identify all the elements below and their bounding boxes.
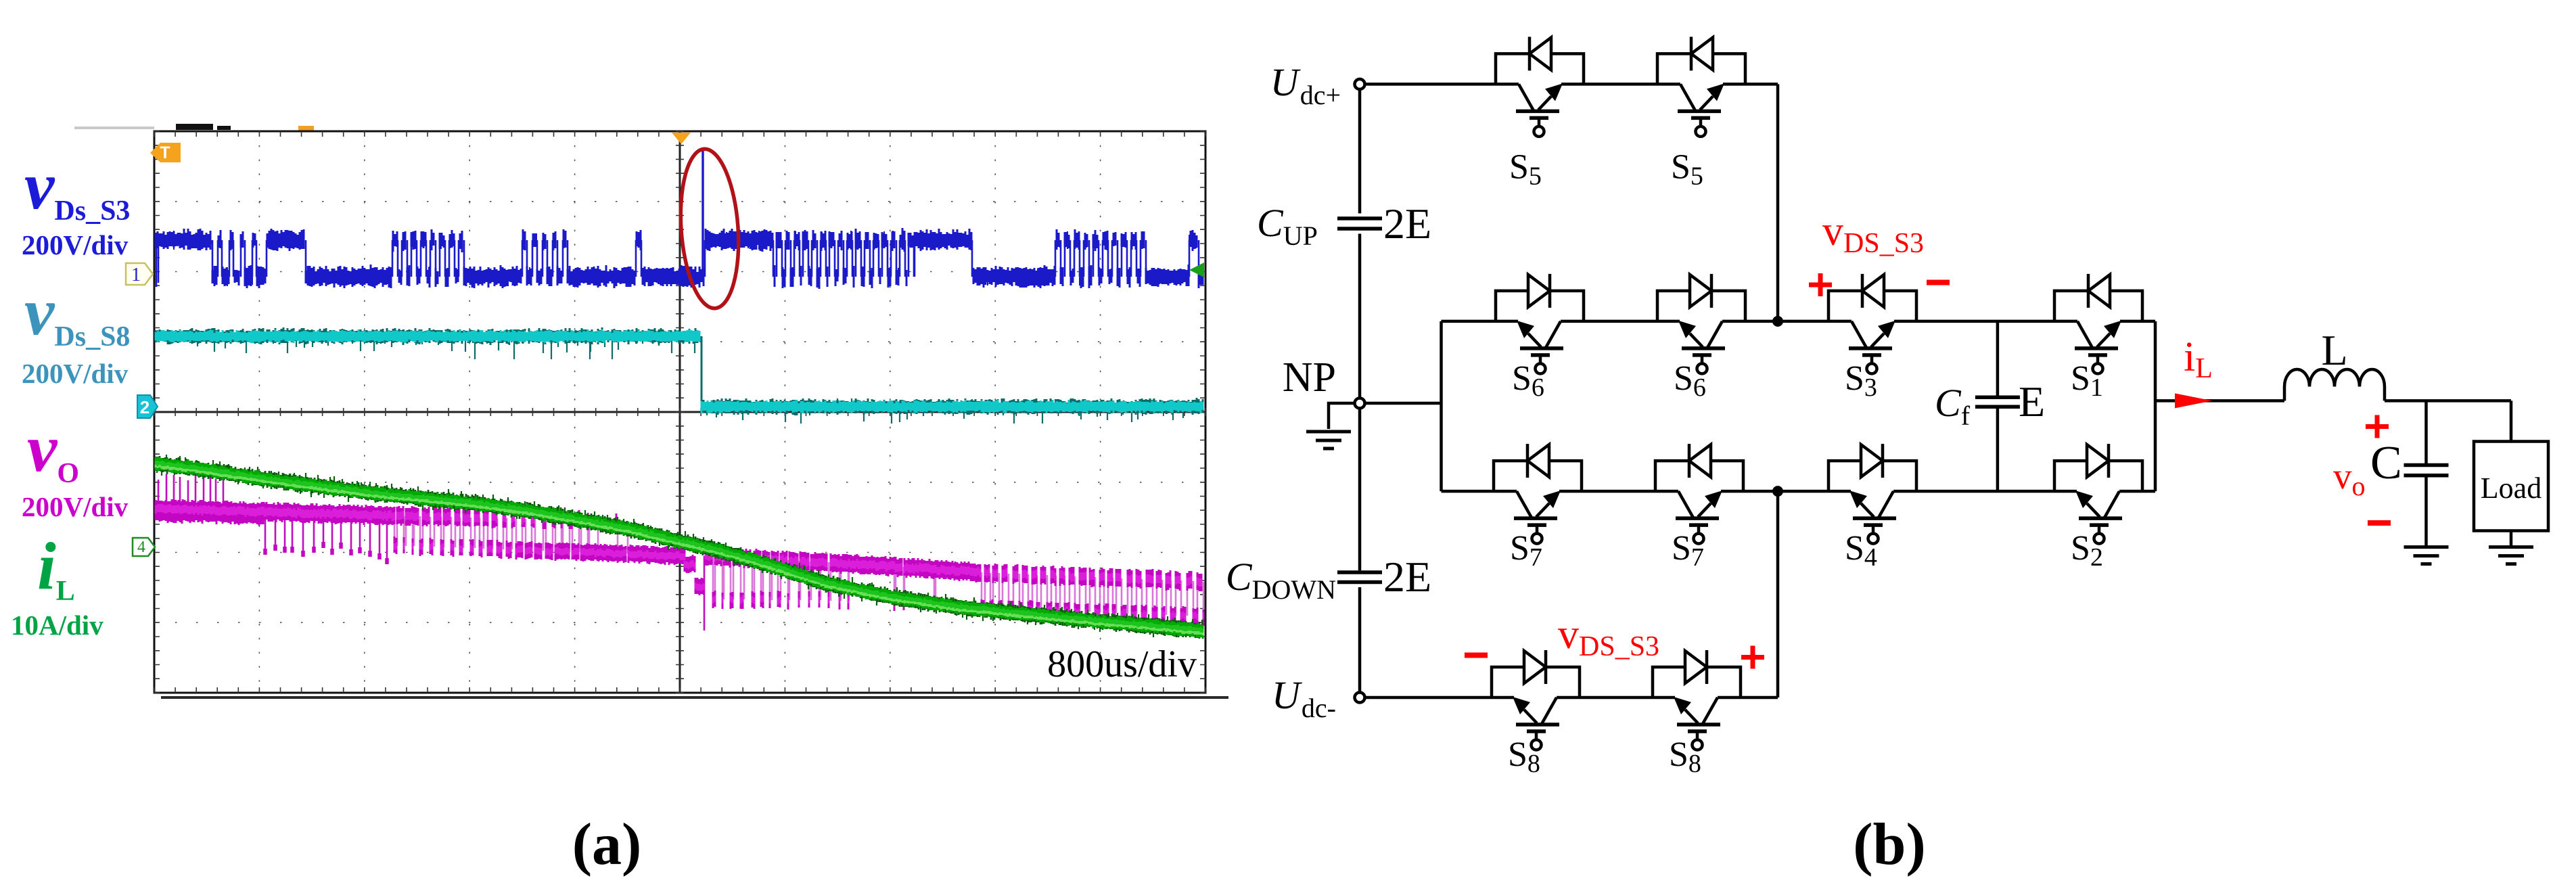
svg-text:L: L — [2321, 326, 2347, 374]
wire NP riser — [1440, 321, 1443, 491]
svg-text:vDS_S3: vDS_S3 — [1558, 612, 1659, 662]
svg-text:S5: S5 — [1509, 147, 1542, 190]
svg-text:Cf: Cf — [1935, 381, 1971, 431]
svg-text:10A/div: 10A/div — [11, 610, 103, 641]
transistor S7 (right) — [1655, 461, 1743, 491]
svg-text:Load: Load — [2481, 472, 2541, 505]
wire C to ground — [2424, 477, 2428, 546]
wire middle column upper — [1776, 84, 1780, 321]
transistor S5 (left) — [1496, 53, 1584, 84]
wire to C branch — [2424, 400, 2428, 463]
wire row3 left — [1442, 490, 1494, 493]
svg-text:200V/div: 200V/div — [22, 229, 129, 260]
svg-text:vo: vo — [2333, 455, 2366, 501]
svg-text:NP: NP — [1283, 354, 1336, 400]
svg-text:T: T — [160, 143, 170, 162]
wire Cf top — [1996, 321, 2000, 396]
wire S1 to output — [2142, 320, 2155, 323]
svg-text:1: 1 — [131, 265, 141, 285]
svg-text:vDS_S3: vDS_S3 — [1822, 208, 1924, 259]
oscilloscope screenshot (a) — [74, 124, 1228, 699]
wire output right vertical — [2154, 321, 2157, 491]
svg-text:CDOWN: CDOWN — [1226, 555, 1336, 605]
node Udc- — [1355, 693, 1365, 703]
wire S5 to S5 — [1584, 83, 1657, 86]
transistor S6 (left) — [1496, 291, 1584, 321]
ground at NP — [1329, 403, 1355, 429]
svg-text:2E: 2E — [1383, 553, 1431, 601]
highlight ellipse — [676, 147, 743, 310]
svg-text:CUP: CUP — [1257, 201, 1318, 251]
svg-text:2: 2 — [140, 397, 149, 417]
capacitor C — [2404, 465, 2449, 476]
capacitor CDOWN 2E — [1337, 572, 1382, 582]
transistor S8 (right) — [1653, 667, 1741, 697]
svg-text:2E: 2E — [1383, 200, 1431, 248]
wire Udc+ to S5 row — [1364, 83, 1496, 86]
wire S6 to junction — [1745, 320, 1828, 323]
wire middle column lower — [1776, 491, 1780, 697]
minus sign vo — [2368, 520, 2391, 526]
inductor L — [2283, 387, 2286, 401]
channel 2 marker — [137, 395, 158, 418]
load box — [2474, 442, 2548, 531]
wire inductor to load — [2385, 399, 2511, 403]
transistor S5 (right) — [1657, 53, 1745, 84]
transistor S4 — [1828, 461, 1916, 491]
svg-text:vDs_S3: vDs_S3 — [24, 148, 130, 227]
svg-text:C: C — [2370, 437, 2402, 489]
svg-text:iL: iL — [37, 528, 75, 607]
svg-text:(b): (b) — [1853, 812, 1926, 877]
wire NP to CDOWN — [1358, 409, 1362, 571]
transistor S8 (left) — [1492, 667, 1580, 697]
wire S6 to S6 — [1584, 320, 1657, 323]
ch1 turn-on voltage spike — [701, 147, 704, 277]
trigger level arrow — [1189, 262, 1204, 277]
wire CDOWN to Udc- — [1358, 587, 1362, 693]
ground below C — [2404, 547, 2449, 564]
wire Cf bottom — [1996, 409, 2000, 492]
svg-text:E: E — [2019, 377, 2045, 426]
svg-text:iL: iL — [2184, 334, 2213, 384]
svg-text:Udc+: Udc+ — [1270, 60, 1341, 110]
wire S8 to S8 — [1580, 696, 1653, 700]
svg-text:200V/div: 200V/div — [22, 491, 129, 522]
wire CUP to NP — [1358, 234, 1362, 398]
wire S7 to junction — [1743, 490, 1828, 493]
plus sign (top) — [1809, 273, 1832, 296]
wire row2 left — [1442, 320, 1496, 323]
ground below load — [2489, 547, 2533, 564]
wire S2 to output — [2142, 490, 2155, 493]
wire load drop — [2510, 400, 2513, 441]
transistor S7 (left) — [1494, 461, 1582, 491]
transistor S6 (right) — [1657, 291, 1745, 321]
wire Udc- to S8 row — [1364, 696, 1492, 700]
trigger position triangle — [672, 133, 691, 144]
transistor S1 — [2054, 291, 2142, 321]
svg-text:4: 4 — [137, 539, 145, 556]
junction row3 — [1772, 486, 1783, 497]
current arrow iL — [2175, 393, 2212, 408]
wire NP to bridge — [1364, 402, 1442, 405]
plus sign (bottom) — [1741, 646, 1764, 669]
svg-text:(a): (a) — [572, 812, 642, 877]
wire S7 to S7 — [1582, 490, 1655, 493]
svg-text:800us/div: 800us/div — [1047, 643, 1197, 685]
capacitor CUP 2E — [1337, 219, 1382, 229]
svg-text:vO: vO — [27, 411, 79, 489]
svg-text:vDs_S8: vDs_S8 — [24, 274, 130, 352]
node Udc+ — [1355, 79, 1365, 89]
transistor S2 — [2054, 461, 2142, 491]
transistor S3 — [1828, 291, 1916, 321]
wire S3 to S1 — [1916, 320, 2054, 323]
wire output to inductor — [2155, 399, 2284, 403]
wire dc-link top — [1358, 89, 1362, 214]
svg-text:S5: S5 — [1671, 147, 1703, 190]
minus sign (top) — [1927, 280, 1950, 285]
svg-text:200V/div: 200V/div — [22, 358, 129, 389]
wire S4 to S2 — [1916, 490, 2054, 493]
channel 1 marker — [126, 263, 153, 285]
node NP — [1355, 398, 1365, 409]
plus sign vo — [2366, 415, 2389, 438]
minus sign (bottom) — [1465, 653, 1488, 658]
channel 4 marker — [133, 538, 155, 556]
trigger T flag marker — [150, 143, 181, 162]
capacitor Cf E — [1975, 397, 2020, 407]
junction row2 — [1772, 316, 1783, 327]
svg-text:Udc-: Udc- — [1272, 673, 1336, 723]
wire S8 row to middle column — [1741, 696, 1778, 700]
wire S5 row to middle column — [1745, 83, 1778, 86]
wire load to ground — [2510, 531, 2513, 547]
